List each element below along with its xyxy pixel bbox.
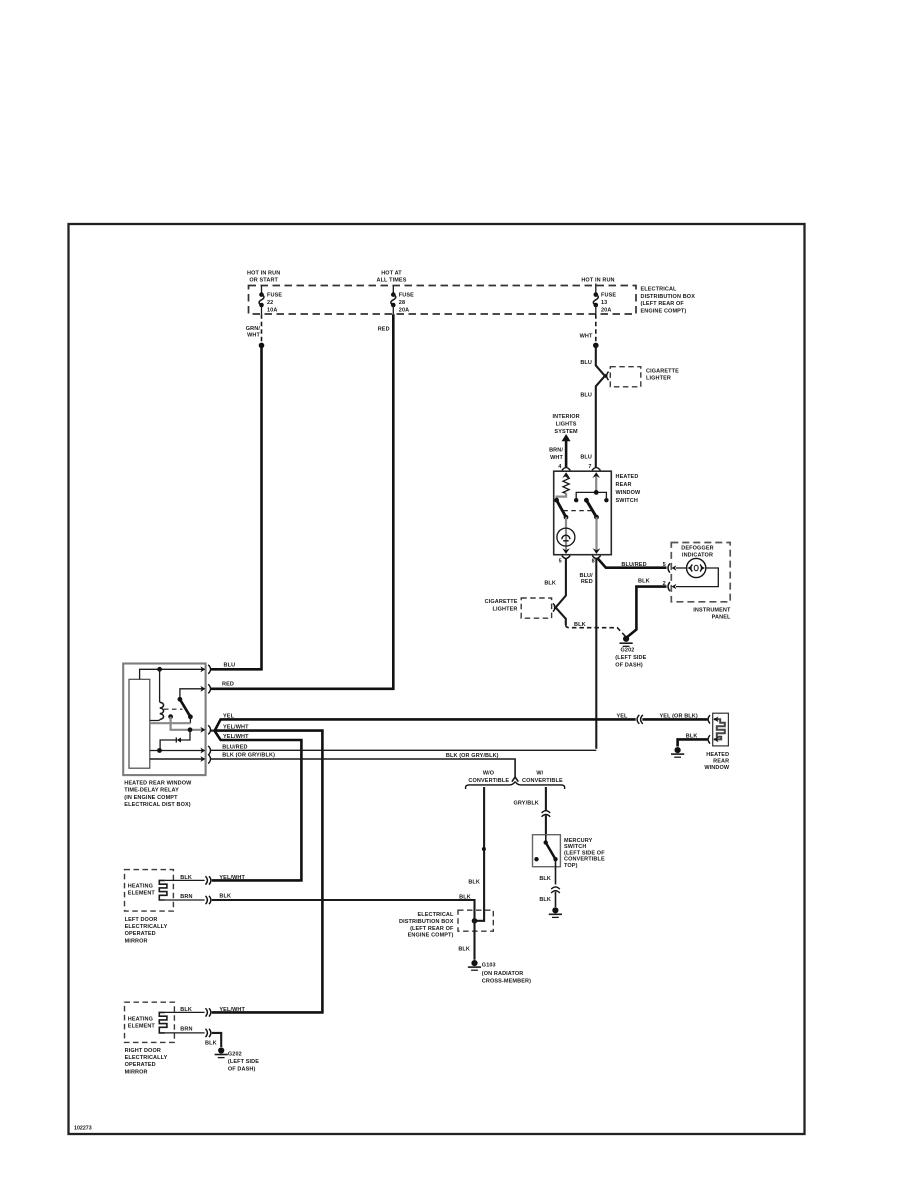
electrical distribution box 2 dashed outline	[458, 910, 493, 931]
svg-text:DISTRIBUTION BOX: DISTRIBUTION BOX	[641, 294, 696, 300]
resistor inside switch	[563, 475, 569, 494]
wire BRN/WHT to switch pin 4	[565, 441, 568, 468]
svg-text:BLK: BLK	[459, 895, 471, 901]
svg-text:BLK: BLK	[219, 894, 231, 900]
svg-text:CIGARETTE: CIGARETTE	[485, 599, 518, 605]
svg-text:CONVERTIBLE: CONVERTIBLE	[564, 857, 605, 863]
wire from resistor to contact	[557, 493, 567, 499]
pin 7 internal wire	[595, 474, 597, 492]
ground G202 (left side of dash)	[623, 636, 629, 642]
svg-text:(LEFT SIDE: (LEFT SIDE	[615, 655, 646, 661]
svg-text:OF DASH): OF DASH)	[228, 1067, 256, 1073]
defogger indicator lamp	[687, 558, 706, 577]
svg-text:ENGINE COMPT): ENGINE COMPT)	[408, 933, 454, 939]
indicator pin 2 connector and internal wire	[668, 582, 670, 591]
fuse 22 10A	[259, 285, 282, 314]
svg-text:BLK: BLK	[544, 580, 556, 586]
svg-text:28: 28	[399, 300, 405, 306]
svg-text:HOT IN RUN: HOT IN RUN	[247, 271, 280, 277]
svg-text:WHT: WHT	[550, 455, 563, 461]
wire BLU from fuse 22 to relay pin 1	[211, 345, 262, 669]
relay pin connector arcs	[208, 665, 210, 674]
svg-text:CIGARETTE: CIGARETTE	[646, 368, 679, 374]
svg-text:WINDOW: WINDOW	[616, 490, 642, 496]
svg-text:GRN/: GRN/	[246, 326, 261, 332]
node: W/O CONVERTIBLE	[468, 771, 509, 784]
ground G103 (on radiator cross-member)	[471, 960, 477, 966]
mechanical link (dashed)	[563, 510, 591, 512]
svg-text:YEL/WHT: YEL/WHT	[223, 734, 249, 740]
svg-text:HEATING: HEATING	[128, 884, 153, 890]
right mirror top connector	[206, 1008, 208, 1016]
splice node at fuse 22 output	[259, 343, 265, 349]
wire YEL/WHT from relay to left door mirror	[212, 731, 302, 881]
svg-text:PANEL: PANEL	[712, 615, 731, 621]
svg-text:G202: G202	[621, 647, 635, 653]
switch common bar	[576, 492, 606, 498]
node: HOT IN RUN OR START	[247, 271, 280, 284]
svg-text:YEL: YEL	[223, 713, 235, 719]
svg-text:BLU/RED: BLU/RED	[222, 744, 247, 750]
svg-text:YEL/WHT: YEL/WHT	[219, 1007, 245, 1013]
pin 8 internal wire with down arrow	[595, 517, 597, 550]
wire BLK below mercury switch	[555, 859, 557, 884]
svg-text:WINDOW: WINDOW	[704, 765, 730, 771]
inline connector on YEL wire	[637, 715, 639, 724]
inline connector below mercury switch	[551, 887, 560, 889]
wire RED from fuse 28 to relay pin 2	[211, 314, 394, 689]
svg-text:ALL TIMES: ALL TIMES	[376, 278, 406, 284]
fuse box label	[641, 287, 696, 315]
svg-text:HOT AT: HOT AT	[381, 271, 402, 277]
instrument panel dashed box	[671, 543, 730, 602]
svg-text:ELECTRICAL: ELECTRICAL	[641, 287, 678, 293]
switch illumination lamp	[565, 517, 567, 550]
svg-text:YEL/WHT: YEL/WHT	[223, 724, 249, 730]
left mirror bottom connector	[206, 896, 208, 904]
wire BLU from splice to cigarette lighter tap	[596, 345, 606, 377]
svg-text:WHT: WHT	[247, 333, 260, 339]
node: W/ CONVERTIBLE	[522, 771, 563, 784]
svg-text:SWITCH: SWITCH	[564, 844, 586, 850]
arrow to interior lights system	[562, 434, 571, 441]
right mirror heating element	[159, 1012, 167, 1033]
relay switch blade	[180, 689, 202, 700]
svg-text:DEFOGGER: DEFOGGER	[681, 546, 713, 552]
heated rear window switch box	[554, 471, 612, 555]
svg-text:(LEFT REAR OF: (LEFT REAR OF	[641, 301, 685, 307]
svg-text:CONVERTIBLE: CONVERTIBLE	[522, 778, 563, 784]
right mirror label	[125, 1048, 168, 1075]
heated rear window time-delay relay box	[123, 664, 205, 776]
right mirror top lead BLK	[165, 1011, 205, 1013]
wire BLU/RED branch from pin 8 to defogger indicator	[598, 558, 667, 567]
relay wire: module to pin 4	[150, 750, 202, 752]
relay wire to pin 3	[168, 714, 173, 719]
svg-text:13: 13	[601, 300, 607, 306]
wire BLK to ground below mercury switch	[555, 892, 557, 907]
svg-text:BLK: BLK	[638, 579, 650, 585]
svg-text:RIGHT DOOR: RIGHT DOOR	[125, 1048, 161, 1054]
svg-text:BLU: BLU	[580, 454, 592, 460]
mercury switch contacts	[545, 835, 547, 842]
svg-text:BLK: BLK	[458, 947, 470, 953]
svg-text:HEATING: HEATING	[128, 1017, 153, 1023]
svg-text:BRN: BRN	[180, 1027, 192, 1033]
svg-text:102273: 102273	[74, 1126, 92, 1132]
relay internal module	[129, 679, 150, 768]
right door mirror box	[125, 1002, 175, 1042]
svg-text:BRN/: BRN/	[549, 448, 563, 454]
wire BLK from mirrors through distribution box to G103	[212, 900, 475, 960]
svg-text:OF DASH): OF DASH)	[615, 662, 643, 668]
svg-text:22: 22	[267, 300, 273, 306]
svg-text:BLK: BLK	[686, 734, 698, 740]
pin 4 connector arc	[562, 468, 570, 471]
wire BLK to mercury switch	[545, 815, 547, 834]
right switch blade	[584, 498, 589, 503]
svg-text:HEATED: HEATED	[616, 474, 639, 480]
svg-text:BLK: BLK	[539, 897, 551, 903]
svg-text:(LEFT SIDE OF: (LEFT SIDE OF	[564, 850, 605, 856]
wire BLK (W/O convertible branch)	[476, 787, 485, 921]
svg-text:BLK: BLK	[574, 622, 586, 628]
heating grid element	[714, 719, 725, 739]
svg-text:INTERIOR: INTERIOR	[552, 414, 579, 420]
svg-text:2: 2	[663, 581, 666, 587]
svg-text:RED: RED	[378, 327, 390, 333]
svg-text:5: 5	[559, 558, 562, 564]
svg-text:HOT IN RUN: HOT IN RUN	[581, 278, 614, 284]
svg-text:CROSS-MEMBER): CROSS-MEMBER)	[482, 978, 531, 984]
svg-text:ELECTRICALLY: ELECTRICALLY	[125, 924, 168, 930]
connector to cigarette lighter	[607, 372, 609, 381]
svg-text:BLK: BLK	[180, 1007, 192, 1013]
svg-text:20A: 20A	[601, 307, 611, 313]
svg-text:BLK: BLK	[180, 875, 192, 881]
svg-text:BLK (OR GRY/BLK): BLK (OR GRY/BLK)	[446, 753, 499, 759]
svg-text:TIME-DELAY RELAY: TIME-DELAY RELAY	[124, 788, 179, 794]
wire BLU/RED from switch pin 8 down to relay	[595, 559, 597, 749]
border frame	[69, 224, 805, 1134]
svg-text:BLK (OR GRY/BLK): BLK (OR GRY/BLK)	[222, 753, 275, 759]
svg-text:BRN: BRN	[180, 894, 192, 900]
right mirror bottom connector	[206, 1029, 208, 1037]
wire fan at relay pin 3	[211, 730, 215, 732]
svg-text:DISTRIBUTION BOX: DISTRIBUTION BOX	[399, 919, 454, 925]
svg-text:10A: 10A	[267, 307, 277, 313]
svg-text:ELECTRICAL: ELECTRICAL	[417, 912, 454, 918]
svg-text:YEL (OR BLK): YEL (OR BLK)	[660, 713, 698, 719]
svg-text:5: 5	[663, 562, 666, 568]
svg-text:ELECTRICAL DIST BOX): ELECTRICAL DIST BOX)	[124, 802, 191, 808]
svg-text:(LEFT REAR OF: (LEFT REAR OF	[410, 926, 454, 932]
wire BLK from connector toward ground (dashed)	[554, 606, 565, 625]
switch pin 4 internal arrow	[562, 472, 570, 478]
indicator pin 5 connector	[668, 563, 670, 572]
svg-text:CONVERTIBLE: CONVERTIBLE	[468, 778, 509, 784]
svg-text:20A: 20A	[399, 307, 409, 313]
svg-text:REAR: REAR	[713, 759, 729, 765]
relay pin arrows	[200, 666, 205, 672]
svg-text:WHT: WHT	[580, 334, 593, 340]
svg-text:YEL: YEL	[616, 713, 628, 719]
svg-text:RED: RED	[222, 682, 234, 688]
svg-text:W/O: W/O	[483, 771, 495, 777]
node: HOT IN RUN	[581, 278, 614, 284]
relay wire: module to pin 1	[140, 669, 202, 679]
wire YEL (OR BLK) to heated rear window	[642, 718, 707, 721]
svg-text:(IN ENGINE COMPT: (IN ENGINE COMPT	[124, 795, 178, 801]
svg-text:LIGHTS: LIGHTS	[556, 422, 577, 428]
wire BLK from right mirror to ground	[212, 1033, 221, 1047]
ground below mercury switch	[552, 907, 558, 913]
svg-text:ENGINE COMPT): ENGINE COMPT)	[641, 308, 687, 314]
svg-text:OPERATED: OPERATED	[125, 931, 156, 937]
svg-text:FUSE: FUSE	[399, 293, 414, 299]
wire BLK from switch pin 5 to cigarette lighter connector	[554, 559, 566, 609]
wire BLK (OR GRY/BLK) from relay pin 5	[211, 759, 515, 778]
inline connector on convertible branch	[542, 811, 551, 813]
svg-text:BLK: BLK	[468, 880, 480, 886]
left mirror label	[125, 917, 168, 944]
svg-text:7: 7	[588, 464, 591, 470]
svg-text:BLK: BLK	[539, 876, 551, 882]
svg-text:SYSTEM: SYSTEM	[554, 429, 578, 435]
relay label	[124, 780, 192, 808]
left mirror top lead BLK	[165, 879, 205, 881]
svg-text:OR START: OR START	[249, 278, 278, 284]
svg-text:LIGHTER: LIGHTER	[646, 376, 671, 382]
electrical distribution box (fuse box) dashed outline	[249, 286, 637, 315]
svg-text:REAR: REAR	[616, 482, 632, 488]
svg-text:GRY/BLK: GRY/BLK	[514, 801, 539, 807]
heated rear window label	[704, 752, 730, 771]
wire BLK from defogger indicator pin 2 to ground	[628, 587, 667, 637]
wire WHT (dashed, below fuse 13)	[595, 314, 597, 343]
svg-text:FUSE: FUSE	[267, 293, 282, 299]
svg-text:BLU: BLU	[580, 360, 592, 366]
svg-text:BLU/: BLU/	[579, 573, 593, 579]
mercury switch box	[533, 835, 561, 867]
svg-text:ELEMENT: ELEMENT	[128, 1023, 156, 1029]
svg-text:SWITCH: SWITCH	[616, 498, 638, 504]
svg-text:BLU: BLU	[580, 392, 592, 398]
pin 7 connector arc	[592, 468, 600, 471]
cigarette lighter 2 connector	[553, 603, 555, 611]
svg-text:G103: G103	[482, 963, 496, 969]
cigarette lighter box	[610, 367, 641, 387]
ground at heated rear window	[675, 747, 681, 753]
svg-text:8: 8	[592, 558, 595, 564]
wire YEL/WHT from relay to right door mirror	[212, 731, 323, 1013]
svg-text:TOP): TOP)	[564, 863, 578, 869]
relay wire: module to pin 5	[150, 758, 202, 760]
fuse 28 20A	[391, 285, 414, 314]
svg-text:MIRROR: MIRROR	[125, 1069, 148, 1075]
svg-text:(ON RADIATOR: (ON RADIATOR	[482, 971, 524, 977]
svg-text:INDICATOR: INDICATOR	[682, 553, 713, 559]
wire GRN/WHT (dashed, below fuse 22)	[261, 314, 263, 343]
ground G202 (right mirror)	[218, 1047, 224, 1053]
svg-text:G202: G202	[228, 1052, 242, 1058]
right mirror bottom lead BRN	[165, 1032, 205, 1034]
node: INTERIOR LIGHTS SYSTEM	[552, 414, 579, 435]
svg-text:HEATED REAR WINDOW: HEATED REAR WINDOW	[124, 780, 192, 786]
left mirror heating element	[159, 880, 167, 900]
svg-text:BLU/RED: BLU/RED	[621, 562, 646, 568]
svg-text:YEL/WHT: YEL/WHT	[219, 875, 245, 881]
svg-text:LEFT DOOR: LEFT DOOR	[125, 917, 158, 923]
svg-text:ELEMENT: ELEMENT	[128, 890, 156, 896]
splice node at fuse 13 output	[593, 343, 599, 349]
node: HOT AT ALL TIMES	[376, 271, 406, 284]
pin 8 connector arc	[592, 556, 600, 559]
svg-text:FUSE: FUSE	[601, 293, 616, 299]
left switch blade	[554, 498, 559, 503]
left door mirror box	[125, 870, 174, 912]
svg-text:MIRROR: MIRROR	[125, 938, 148, 944]
svg-text:BLK: BLK	[205, 1041, 217, 1047]
wire BLU/RED from relay pin 4	[211, 749, 597, 751]
svg-text:BLU: BLU	[224, 662, 236, 668]
svg-text:LIGHTER: LIGHTER	[493, 607, 518, 613]
instrument panel label	[693, 607, 731, 620]
cigarette lighter box 2	[521, 598, 551, 618]
svg-text:(LEFT SIDE: (LEFT SIDE	[228, 1059, 259, 1065]
left mirror top connector	[206, 876, 208, 884]
svg-text:MERCURY: MERCURY	[564, 838, 593, 844]
svg-text:HEATED: HEATED	[706, 752, 729, 758]
pin 5 connector arc	[562, 556, 570, 559]
heated rear window connector arcs	[708, 715, 710, 723]
wire YEL from relay to connector	[215, 719, 636, 731]
relay coil	[159, 669, 161, 702]
option split symbol (W/O vs W/ convertible)	[512, 777, 518, 782]
junction in distribution box 2	[472, 918, 478, 924]
relay diode	[181, 730, 190, 740]
svg-text:RED: RED	[581, 579, 593, 585]
svg-text:W/: W/	[536, 771, 543, 777]
heated rear window element box	[713, 713, 729, 746]
svg-text:OPERATED: OPERATED	[125, 1062, 156, 1068]
left mirror bottom lead BRN	[165, 899, 205, 901]
wire BLK from heated rear window to ground	[678, 739, 708, 746]
relay dashed link	[164, 708, 182, 710]
fuse 13 20A	[593, 284, 616, 315]
wire GRY/BLK (W/ convertible branch)	[545, 787, 547, 811]
svg-text:ELECTRICALLY: ELECTRICALLY	[125, 1055, 168, 1061]
svg-text:INSTRUMENT: INSTRUMENT	[693, 607, 731, 613]
